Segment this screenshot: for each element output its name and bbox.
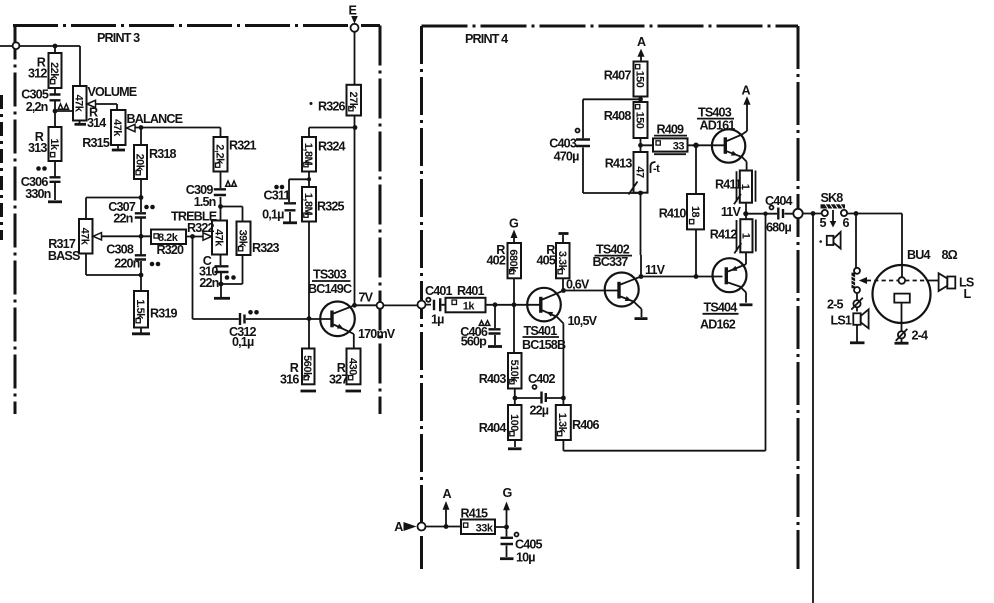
svg-text:L: L [964, 287, 972, 301]
svg-text:312: 312 [28, 67, 47, 81]
svg-text:C402: C402 [528, 372, 556, 386]
svg-text:G: G [503, 486, 513, 500]
svg-text:-t: -t [653, 163, 660, 175]
svg-text:G: G [509, 217, 519, 231]
svg-text:510k: 510k [508, 359, 520, 383]
svg-text:680µ: 680µ [766, 221, 791, 235]
svg-text:47k: 47k [213, 229, 225, 247]
svg-text:2,2k: 2,2k [214, 144, 226, 165]
svg-text:R412: R412 [710, 228, 738, 242]
svg-text:47: 47 [634, 166, 646, 178]
svg-text:10µ: 10µ [516, 551, 535, 565]
svg-text:47k: 47k [73, 95, 85, 113]
svg-text:170mV: 170mV [358, 327, 396, 341]
svg-text:100: 100 [508, 414, 520, 431]
svg-text:R409: R409 [657, 123, 685, 137]
svg-text:R411: R411 [715, 178, 742, 192]
svg-text:C405: C405 [515, 538, 543, 552]
svg-text:430: 430 [347, 358, 359, 375]
svg-text:470µ: 470µ [554, 150, 579, 164]
svg-text:R315: R315 [82, 136, 110, 150]
svg-text:47k: 47k [79, 228, 91, 246]
svg-text:R321: R321 [229, 139, 257, 153]
svg-text:6: 6 [843, 216, 850, 230]
svg-text:3.3k: 3.3k [556, 251, 568, 272]
svg-text:TS404: TS404 [704, 301, 738, 315]
svg-text:18: 18 [689, 206, 701, 218]
svg-text:22n: 22n [113, 212, 132, 226]
svg-text:SK8: SK8 [821, 191, 844, 205]
svg-text:47k: 47k [111, 119, 123, 137]
svg-text:AD161: AD161 [700, 119, 736, 133]
svg-text:R401: R401 [457, 284, 485, 298]
svg-text:TS401: TS401 [524, 324, 558, 338]
svg-text:BASS: BASS [48, 249, 80, 263]
svg-text:27k: 27k [347, 92, 359, 110]
svg-text:8Ω: 8Ω [942, 248, 958, 262]
svg-text:560p: 560p [461, 335, 487, 349]
svg-text:PRINT 4: PRINT 4 [465, 32, 508, 46]
svg-text:R404: R404 [479, 421, 507, 435]
svg-text:R319: R319 [150, 307, 178, 321]
svg-text:20k: 20k [134, 154, 146, 172]
svg-text:330n: 330n [25, 187, 50, 201]
svg-text:313: 313 [28, 141, 47, 155]
svg-text:C401: C401 [425, 284, 453, 298]
svg-text:BALANCE: BALANCE [127, 112, 183, 126]
svg-text:A: A [742, 84, 751, 98]
svg-text:E: E [349, 4, 357, 18]
svg-text:A: A [394, 520, 403, 534]
svg-text:327: 327 [329, 373, 348, 387]
svg-text:R322: R322 [187, 221, 215, 235]
svg-text:LS1: LS1 [831, 314, 852, 328]
svg-text:33: 33 [673, 140, 685, 152]
svg-text:1,8M: 1,8M [302, 193, 314, 216]
svg-text:22µ: 22µ [530, 404, 549, 418]
svg-text:TS303: TS303 [313, 268, 347, 282]
svg-text:R318: R318 [149, 147, 177, 161]
svg-text:22n: 22n [199, 276, 218, 290]
svg-text:R323: R323 [252, 241, 280, 255]
svg-text:C311: C311 [263, 189, 290, 203]
svg-text:150: 150 [634, 71, 646, 88]
svg-text:2-4: 2-4 [912, 329, 928, 343]
svg-text:1,8M: 1,8M [302, 143, 314, 166]
svg-text:BU4: BU4 [907, 248, 930, 262]
svg-text:10,5V: 10,5V [568, 314, 598, 328]
svg-text:1k: 1k [48, 138, 60, 151]
svg-text:2-5: 2-5 [827, 298, 843, 312]
svg-text:R410: R410 [659, 207, 687, 221]
svg-text:2,2n: 2,2n [26, 100, 48, 114]
svg-text:11V: 11V [645, 263, 666, 277]
svg-text:0,6V: 0,6V [566, 278, 590, 292]
svg-text:BC337: BC337 [593, 255, 629, 269]
svg-text:1µ: 1µ [431, 313, 444, 327]
svg-text:1.3k: 1.3k [556, 413, 568, 434]
svg-text:1.5n: 1.5n [194, 195, 216, 209]
svg-text:1k: 1k [463, 301, 476, 313]
svg-text:1.5k: 1.5k [134, 299, 146, 320]
svg-text:AD162: AD162 [700, 318, 736, 332]
svg-text:TS403: TS403 [698, 106, 732, 120]
svg-text:1: 1 [739, 233, 751, 239]
svg-text:R408: R408 [604, 109, 632, 123]
svg-text:R415: R415 [461, 507, 489, 521]
svg-text:C403: C403 [549, 137, 577, 151]
svg-text:BC158B: BC158B [522, 338, 566, 352]
svg-text:R325: R325 [317, 200, 345, 214]
svg-text:C308: C308 [106, 243, 134, 257]
svg-text:R406: R406 [572, 418, 600, 432]
svg-text:R413: R413 [605, 157, 633, 171]
svg-text:150: 150 [634, 112, 646, 129]
svg-text:405: 405 [537, 254, 556, 268]
svg-text:220n: 220n [114, 257, 139, 271]
svg-text:A: A [443, 487, 452, 501]
svg-text:680k: 680k [507, 249, 519, 273]
svg-text:33k: 33k [476, 523, 494, 535]
svg-text:560k: 560k [301, 355, 313, 379]
svg-text:R324: R324 [318, 140, 346, 154]
svg-text:402: 402 [487, 254, 506, 268]
svg-text:A: A [637, 35, 646, 49]
svg-text:5: 5 [820, 216, 827, 230]
svg-text:R403: R403 [479, 372, 507, 386]
svg-text:R326: R326 [318, 100, 346, 114]
svg-text:22k: 22k [48, 62, 60, 80]
svg-text:R320: R320 [157, 243, 185, 257]
svg-text:39k: 39k [237, 230, 249, 248]
svg-text:316: 316 [280, 373, 299, 387]
svg-text:R407: R407 [604, 69, 632, 83]
svg-text:0,1µ: 0,1µ [262, 208, 284, 222]
svg-text:11V: 11V [721, 205, 742, 219]
svg-text:314: 314 [87, 116, 106, 130]
svg-text:BC149C: BC149C [308, 282, 352, 296]
svg-text:PRINT 3: PRINT 3 [97, 31, 140, 45]
svg-text:C404: C404 [765, 194, 793, 208]
svg-text:VOLUME: VOLUME [88, 85, 137, 99]
svg-text:7V: 7V [359, 291, 374, 305]
svg-text:0,1µ: 0,1µ [232, 335, 254, 349]
